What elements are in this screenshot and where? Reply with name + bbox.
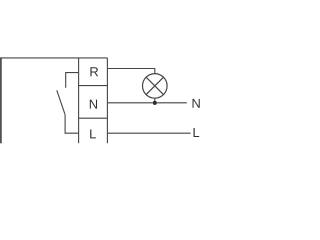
net label L <box>193 128 199 137</box>
terminal label N <box>90 100 97 109</box>
device body left edge <box>0 57 2 143</box>
neutral wire N <box>107 102 186 104</box>
terminal block left edge <box>78 58 80 143</box>
wire from R terminal to switch top contact <box>66 73 79 88</box>
divider between N and L terminals <box>79 117 108 119</box>
terminal block right edge <box>106 58 108 143</box>
terminal label R <box>90 67 98 76</box>
wire from lamp to neutral line <box>154 98 156 103</box>
device body top edge <box>1 57 107 59</box>
terminal label L <box>90 129 96 138</box>
wire from switch bottom to L terminal <box>65 115 79 134</box>
divider between R and N terminals <box>79 85 108 87</box>
wire from R terminal to lamp <box>107 69 154 74</box>
net label N <box>192 99 199 108</box>
line wire L <box>107 132 190 134</box>
junction dot on neutral line <box>153 101 157 105</box>
lamp E1 circle <box>143 74 168 99</box>
lamp E1 cross <box>146 77 163 94</box>
switch blade (open) <box>57 90 65 114</box>
